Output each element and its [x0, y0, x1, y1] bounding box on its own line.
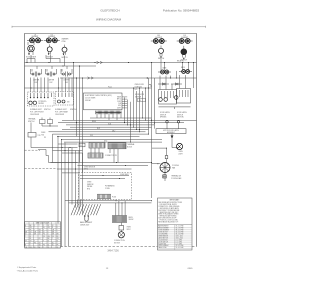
wires inside oven box [80, 175, 129, 179]
svg-text:55 - 65 OHM: 55 - 65 OHM [176, 247, 185, 249]
capacitor symbol [163, 173, 182, 182]
svg-text:W-41: W-41 [108, 123, 112, 125]
svg-text:# Equipotential Parts: # Equipotential Parts [17, 266, 36, 269]
wires to relay coils [161, 59, 194, 89]
header rule [12, 26, 206, 28]
wire to oven light [152, 148, 180, 149]
wire bus L1 [25, 62, 197, 63]
svg-text:P1-12: P1-12 [108, 86, 112, 88]
svg-text:COOLING: COOLING [172, 165, 180, 167]
svg-text:DLB: DLB [118, 103, 121, 105]
svg-text:ELEMENT: ELEMENT [156, 37, 163, 39]
svg-text:OVEN DOOR: OVEN DOOR [135, 84, 145, 86]
small node circles under labels [166, 121, 180, 129]
svg-text:OVEN: OVEN [41, 132, 45, 134]
svg-text:SWITCHES SHOWN IN OFF: SWITCHES SHOWN IN OFF [158, 218, 176, 220]
label bake element [80, 221, 92, 226]
label terminal block [127, 143, 135, 148]
svg-text:Y: Y [34, 240, 35, 242]
wire bus neutral [25, 65, 97, 66]
svg-text:V: V [43, 229, 44, 231]
infinite switch warmer [61, 45, 68, 59]
sensor harness label [105, 185, 115, 190]
svg-text:SERVICING UNIT. USE 105 C: SERVICING UNIT. USE 105 C [160, 212, 179, 214]
wire bus L2 [60, 77, 197, 78]
svg-text:GY: GY [39, 238, 41, 240]
svg-text:(MOTOR): (MOTOR) [177, 117, 184, 119]
svg-text:OR: OR [48, 227, 50, 229]
svg-text:BK: BK [48, 238, 50, 240]
svg-text:SURF. ELEMENT: SURF. ELEMENT [158, 245, 169, 247]
svg-text:R: R [25, 245, 26, 247]
svg-text:Y: Y [52, 238, 53, 240]
svg-text:OVEN: OVEN [87, 181, 91, 183]
svg-text:150C: 150C [49, 82, 52, 84]
svg-text:0 - 1 OHM: 0 - 1 OHM [176, 241, 183, 243]
svg-text:GY: GY [39, 234, 41, 236]
limiter contact pair 3 [61, 69, 72, 84]
oven vent plug [119, 223, 131, 232]
hatched box terminal small [89, 143, 105, 149]
wire right column down [151, 63, 155, 199]
bake element zigzag [71, 204, 101, 215]
svg-text:BROIL ELEMENT: BROIL ELEMENT [158, 228, 169, 230]
svg-text:CLOCK / TIMER: CLOCK / TIMER [85, 98, 95, 100]
wire bundle EOC right [124, 77, 149, 142]
svg-text:ZONE: ZONE [62, 41, 66, 43]
svg-text:V: V [57, 225, 58, 227]
svg-text:BK: BK [30, 225, 32, 227]
svg-text:GY: GY [39, 242, 41, 244]
surface element RR [151, 35, 167, 43]
wire under plugs [42, 126, 58, 127]
svg-text:SWITCH: SWITCH [158, 58, 165, 60]
dual infinite switch RF [181, 46, 188, 62]
sensor connector box [98, 194, 111, 199]
svg-text:POT. LEFT FRONT: POT. LEFT FRONT [30, 111, 44, 113]
svg-text:R: R [30, 242, 31, 244]
notes box [158, 198, 193, 250]
oven light [176, 143, 182, 155]
wire color code table [25, 222, 61, 249]
svg-text:V: V [34, 225, 35, 227]
svg-text:BL: BL [30, 234, 32, 236]
label sensor connector [112, 196, 117, 198]
wire left horizontal row [31, 147, 78, 148]
svg-text:BROIL: BROIL [129, 217, 134, 219]
dashed box surface switch detail 2 [56, 92, 74, 106]
svg-text:3464 7156: 3464 7156 [107, 249, 119, 252]
svg-text:DOOR LOCK: DOOR LOCK [135, 94, 144, 96]
svg-text:OR-7: OR-7 [112, 130, 116, 132]
svg-text:CONVECTION: CONVECTION [114, 240, 125, 242]
latch switch box 2 [174, 89, 190, 104]
svg-text:ELEMENT: ELEMENT [32, 36, 39, 38]
wire feeders left of EOC [73, 62, 83, 173]
wires below oven box [65, 200, 152, 203]
label bake relay [177, 59, 184, 62]
svg-text:PK: PK [52, 236, 54, 238]
svg-text:R: R [25, 225, 26, 227]
svg-text:OVEN SENSOR: OVEN SENSOR [84, 166, 96, 168]
svg-text:MDL: MDL [118, 105, 121, 107]
svg-text:OR: OR [30, 227, 32, 229]
svg-text:SWITCH: SWITCH [135, 96, 141, 98]
svg-text:V: V [57, 229, 58, 231]
svg-text:1050 - 1100: 1050 - 1100 [176, 235, 183, 237]
warmer label [62, 38, 70, 43]
svg-text:BROIL: BROIL [117, 99, 121, 101]
svg-text:VENT: VENT [127, 229, 131, 231]
wires coils to latch boxes [160, 75, 186, 89]
svg-text:OR: OR [34, 232, 36, 234]
svg-text:SWITCH: SWITCH [28, 121, 35, 123]
svg-text:0 - 1 OHM: 0 - 1 OHM [176, 243, 183, 245]
dual infinite switch LF [26, 42, 36, 59]
svg-text:DISCONNECT POWER BEFORE: DISCONNECT POWER BEFORE [158, 210, 179, 212]
relay coil pair 1 [158, 70, 171, 74]
svg-text:ELEMENT: ELEMENT [49, 36, 56, 38]
diode symbol 1 [158, 83, 169, 85]
svg-text:30 - 40 OHM: 30 - 40 OHM [176, 232, 185, 234]
latch switch box 1 [159, 90, 177, 105]
svg-text:0 - 1 OHM: 0 - 1 OHM [176, 239, 183, 241]
svg-text:LIMITER: LIMITER [48, 80, 55, 82]
svg-text:OR: OR [25, 247, 27, 249]
svg-text:V: V [43, 225, 44, 227]
svg-text:BR: BR [34, 234, 36, 236]
svg-text:(RTD): (RTD) [84, 169, 89, 171]
svg-text:GY: GY [25, 240, 27, 242]
svg-text:CONN.: CONN. [105, 188, 110, 190]
svg-text:BR: BR [25, 232, 27, 234]
svg-text:MOTOR: MOTOR [114, 243, 121, 245]
svg-text:BLOCK: BLOCK [127, 146, 132, 148]
labels under latch boxes [160, 111, 187, 119]
limiter contact pair 1 [31, 69, 42, 84]
infinite switch RR [158, 46, 165, 61]
svg-text:2585W 240V: 2585W 240V [80, 224, 90, 226]
svg-text:ELEMENT: ELEMENT [181, 37, 188, 39]
crossing grid left center [49, 144, 132, 173]
label P4 connector [79, 143, 85, 147]
arrow junction [171, 134, 174, 148]
wire tag labels on buses [90, 121, 116, 143]
chassis dashed line [25, 168, 58, 170]
svg-text:0905: 0905 [188, 268, 194, 270]
svg-text:PK: PK [43, 234, 45, 236]
wire bundle left descent turning [72, 148, 83, 214]
svg-text:POTENTIO-: POTENTIO- [39, 101, 48, 103]
svg-text:BL: BL [52, 245, 54, 247]
EOC connector comb [96, 111, 122, 115]
label rows surface switch area [30, 108, 77, 116]
svg-text:BL: BL [48, 240, 50, 242]
surface element RF [177, 35, 193, 43]
label coil pairs [163, 66, 186, 69]
label broil element [129, 217, 134, 221]
svg-text:Y: Y [48, 242, 49, 244]
footer page number [106, 268, 109, 270]
svg-text:R: R [52, 227, 53, 229]
vertical wires bottom center [116, 201, 125, 216]
svg-text:1200/2500W: 1200/2500W [55, 114, 65, 116]
hatched box row2 [88, 153, 103, 158]
svg-text:P4: P4 [80, 145, 82, 147]
cooling fan motor [160, 163, 180, 173]
svg-text:PK: PK [34, 242, 36, 244]
connector P1 on bus L1 [95, 61, 103, 63]
svg-text:BL: BL [48, 245, 50, 247]
connector plug P7 [40, 118, 46, 127]
footer equipotential note [17, 266, 39, 272]
latch motor assembly box [156, 129, 186, 134]
fuse on fan feed [165, 148, 168, 162]
label lower left [84, 166, 96, 170]
wires lower center buses [51, 162, 153, 166]
svg-text:R: R [57, 227, 58, 229]
wires comb to buses [97, 114, 121, 120]
hot surface indicator wires [78, 200, 81, 205]
svg-text:CONV. MOTOR: CONV. MOTOR [158, 232, 168, 234]
svg-text:WIRING DIAGRAM: WIRING DIAGRAM [96, 18, 122, 22]
hatched box terminal block [108, 143, 126, 149]
svg-text:BR: BR [57, 234, 59, 236]
svg-text:BL: BL [57, 240, 59, 242]
oven cavity label [120, 173, 129, 176]
svg-text:SWITCH: SWITCH [160, 114, 166, 116]
header wiring diagram title [96, 18, 122, 22]
svg-text:PK: PK [30, 229, 32, 231]
electronic oven control EOC [84, 93, 123, 110]
svg-text:19 - 21 OHM: 19 - 21 OHM [176, 226, 185, 228]
svg-text:PK: PK [43, 236, 45, 238]
header model number [100, 9, 119, 13]
connector P2 on bus L2 [88, 77, 94, 79]
svg-text:HI-LIMIT SW.: HI-LIMIT SW. [158, 243, 167, 245]
thermal fuse box [28, 123, 42, 148]
svg-text:GY: GY [30, 232, 32, 234]
svg-text:GN: GN [39, 245, 41, 247]
wire into cooling fan [152, 163, 161, 164]
wire drops contacts to switch boxes [31, 66, 73, 92]
svg-text:V-55: V-55 [90, 135, 93, 137]
svg-text:BL: BL [52, 242, 54, 244]
svg-text:LIGHT SW.: LIGHT SW. [135, 86, 143, 88]
relay coil pair 2 [179, 70, 192, 74]
svg-text:LIMITER: LIMITER [64, 80, 71, 82]
svg-text:OVEN: OVEN [178, 151, 182, 153]
connector plug P8 [48, 118, 53, 127]
bracket under latch boxes [159, 107, 191, 109]
svg-text:16 - 18 OHM: 16 - 18 OHM [176, 228, 185, 230]
svg-text:P9: P9 [139, 100, 141, 102]
svg-text:SWITCH: SWITCH [44, 109, 51, 111]
label convection motor [114, 240, 125, 245]
footer code [188, 268, 194, 270]
svg-text:DOOR SWITCH: DOOR SWITCH [158, 241, 168, 243]
svg-text:IMPORTANT :: IMPORTANT : [169, 199, 180, 202]
svg-text:LIGHT: LIGHT [178, 154, 183, 156]
svg-text:OR: OR [52, 229, 54, 231]
svg-text:† Non-Accessible Parts: † Non-Accessible Parts [17, 270, 39, 273]
wire center buses [49, 118, 197, 142]
wire bus to EOC [25, 84, 152, 89]
svg-text:BROIL: BROIL [181, 67, 185, 69]
diode symbol 2 [171, 83, 182, 85]
svg-text:GY: GY [30, 240, 32, 242]
svg-text:ELECTRONIC OVEN CONTROL (EOC): ELECTRONIC OVEN CONTROL (EOC) [85, 95, 112, 97]
dashed oven cavity box [79, 173, 132, 200]
wire bundle left descent long [58, 136, 69, 247]
EOC pin labels [117, 95, 127, 109]
svg-text:METER: METER [39, 103, 45, 105]
surface element LF [27, 34, 43, 42]
svg-text:BL: BL [43, 227, 45, 229]
svg-text:PK: PK [57, 236, 59, 238]
oven sensor labels [87, 181, 94, 190]
diagram border box [25, 34, 197, 247]
broil element box [113, 216, 127, 223]
svg-text:PK: PK [43, 245, 45, 247]
bake element terminal loop [84, 215, 89, 221]
svg-text:BR: BR [52, 234, 54, 236]
svg-text:GN: GN [39, 232, 41, 234]
svg-text:SWITCH: SWITCH [177, 114, 183, 116]
svg-text:1200/2500W: 1200/2500W [30, 114, 40, 116]
stubs boxes row1 to row2 [91, 148, 118, 163]
label row2 [105, 155, 117, 157]
convection motor [118, 232, 124, 238]
svg-text:OVEN SENSOR: OVEN SENSOR [158, 235, 168, 237]
svg-text:1500 - 2500: 1500 - 2500 [176, 237, 183, 239]
limiter contact pair 2 [46, 69, 57, 84]
svg-text:LOCK SWITCH: LOCK SWITCH [158, 239, 167, 241]
svg-text:PK: PK [57, 245, 59, 247]
dashed box surface switch detail 1 [28, 92, 55, 106]
svg-text:CONV. ELEMENT: CONV. ELEMENT [158, 230, 169, 232]
svg-text:OR: OR [39, 229, 41, 231]
svg-text:V: V [43, 240, 44, 242]
svg-text:BK-64: BK-64 [92, 121, 96, 123]
svg-text:BK: BK [39, 247, 41, 249]
svg-text:3400W: 3400W [129, 219, 134, 221]
label rows thermal [28, 118, 36, 124]
svg-text:SENSOR: SENSOR [87, 184, 94, 186]
svg-text:Publication No. 5995448853: Publication No. 5995448853 [163, 9, 200, 13]
infinite switch LR [47, 44, 54, 58]
svg-text:20 - 45 OHM: 20 - 45 OHM [176, 245, 185, 247]
svg-text:P3: P3 [44, 137, 46, 139]
svg-text:CONNECTOR P5: CONNECTOR P5 [105, 155, 117, 157]
svg-text:OVEN: OVEN [127, 227, 131, 229]
header publication number [163, 9, 200, 13]
svg-text:BR: BR [52, 232, 54, 234]
wire drops from left switches [27, 53, 185, 66]
surface element LR [44, 34, 60, 42]
svg-text:150C: 150C [34, 82, 37, 84]
svg-text:OR: OR [30, 247, 32, 249]
svg-text:GN: GN [48, 236, 50, 238]
svg-text:V: V [48, 232, 49, 234]
svg-text:POSITION - DOOR CLOSED.: POSITION - DOOR CLOSED. [160, 220, 179, 222]
svg-text:BL: BL [30, 238, 32, 240]
wire step path [38, 134, 53, 162]
svg-text:Y: Y [57, 232, 58, 234]
part number [107, 249, 119, 252]
svg-text:WIRE COLOR CODE: WIRE COLOR CODE [36, 223, 49, 225]
svg-text:V: V [30, 245, 31, 247]
svg-text:18 - 24 OHM: 18 - 24 OHM [176, 234, 185, 236]
chassis dash line upper [25, 149, 41, 151]
svg-text:(PROBE): (PROBE) [160, 117, 167, 119]
svg-text:CONV: CONV [117, 101, 121, 103]
svg-text:OR: OR [57, 238, 59, 240]
svg-text:PROBE: PROBE [87, 186, 92, 188]
svg-text:V: V [48, 234, 49, 236]
svg-text:LIGHT: LIGHT [117, 107, 121, 109]
labels left lower [41, 132, 46, 139]
left labels door latch [135, 84, 146, 102]
svg-text:R-22: R-22 [97, 128, 100, 130]
svg-text:SWITCH: SWITCH [61, 57, 68, 59]
svg-text:GLEF378DCH: GLEF378DCH [100, 9, 119, 13]
svg-text:38 - 42 OHM: 38 - 42 OHM [176, 230, 185, 232]
